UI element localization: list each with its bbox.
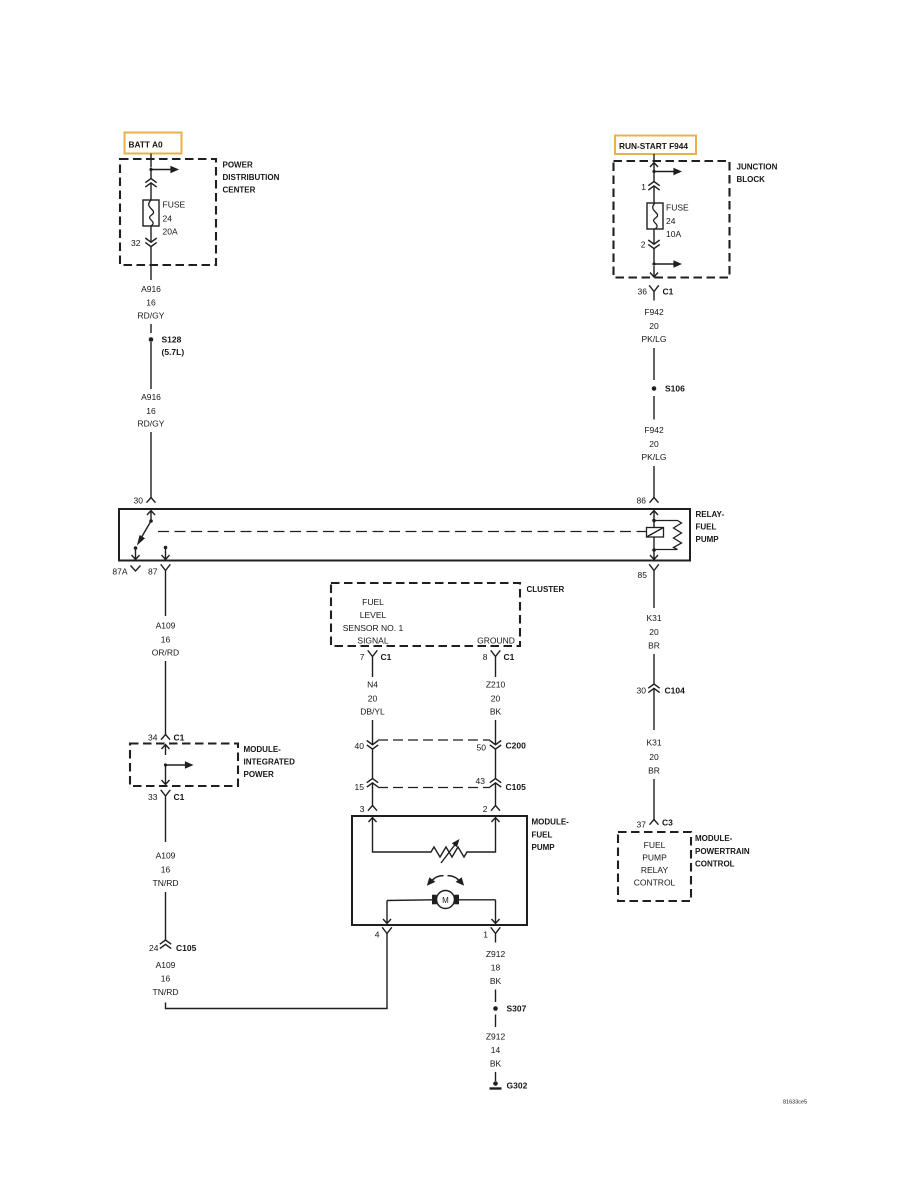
svg-text:RD/GY: RD/GY [138,419,165,429]
svg-text:FUEL: FUEL [644,840,666,850]
wire [653,172,655,182]
svg-text:A916: A916 [141,392,161,402]
svg-text:36: 36 [638,287,648,297]
svg-text:87A: 87A [112,567,127,577]
label fuel level sensor signal [343,597,404,646]
pump rotation arrows [427,876,464,886]
module fuel pump box [352,816,527,925]
svg-text:87: 87 [148,567,158,577]
relay switch blade [137,521,151,546]
svg-text:PUMP: PUMP [532,843,556,852]
wire [372,750,374,779]
svg-text:BK: BK [490,1059,502,1069]
connector pin 32 (PDC) [145,238,156,247]
svg-text:2: 2 [483,804,488,814]
svg-text:S307: S307 [507,1004,527,1014]
svg-text:FUEL: FUEL [362,597,384,607]
MIP pin arrow out [162,765,170,785]
svg-text:BATT A0: BATT A0 [129,140,163,150]
fuel level sensor (variable resistor) [373,828,496,857]
svg-text:POWER: POWER [244,770,274,779]
svg-text:S106: S106 [665,384,685,394]
splice S307 [493,1006,498,1011]
wire A109 from pin 87 [165,580,167,616]
wire to C105 [165,892,167,940]
power source tag BATT A0 [125,133,182,154]
svg-text:OR/RD: OR/RD [152,648,179,658]
svg-text:14: 14 [491,1045,501,1055]
module pin 2 arrow [492,818,500,829]
connector 33 C1 [161,790,171,805]
fuse 24 20A (PDC) [143,200,159,226]
svg-text:C200: C200 [506,741,527,751]
svg-text:16: 16 [161,974,171,984]
svg-text:32: 32 [131,238,141,248]
svg-text:MODULE-: MODULE- [244,745,282,754]
connector pin 4 [382,927,392,942]
module-powertrain control box [618,832,691,901]
wire [653,249,655,264]
svg-text:A109: A109 [156,621,176,631]
wire label A109 16 TN/RD [153,960,179,997]
svg-text:LEVEL: LEVEL [360,610,387,620]
connector 50 C200 [490,741,501,750]
svg-text:DISTRIBUTION: DISTRIBUTION [223,173,280,182]
wire [150,226,152,242]
relay fuel pump box [119,509,690,561]
wire from RUN-START [653,154,655,161]
svg-text:(5.7L): (5.7L) [162,347,185,357]
fuse 24 10A (JB) [647,203,663,229]
connector pin 3 [368,806,377,811]
svg-text:20: 20 [649,321,659,331]
wire label F942 20 PK/LG [641,307,666,344]
svg-text:F942: F942 [644,307,664,317]
svg-text:20: 20 [649,627,659,637]
svg-text:CLUSTER: CLUSTER [527,585,565,594]
wire [495,1015,497,1028]
svg-text:A916: A916 [141,284,161,294]
wire to fuel pump module pin 4 [166,943,388,1009]
relay pin 87 arrow [162,548,170,560]
svg-text:RELAY-: RELAY- [696,510,725,519]
wire [653,396,655,420]
svg-text:20A: 20A [163,227,178,237]
svg-text:8: 8 [483,652,488,662]
svg-text:N4: N4 [367,680,378,690]
svg-text:SIGNAL: SIGNAL [357,636,388,646]
svg-text:PK/LG: PK/LG [641,334,666,344]
svg-text:20: 20 [649,439,659,449]
svg-text:3: 3 [360,804,365,814]
label RELAY-FUEL PUMP [696,510,725,544]
connector C200 dashed link [378,739,490,741]
label MODULE-POWERTRAIN CONTROL [695,834,750,869]
svg-text:7: 7 [360,652,365,662]
relay pin 85 arrow [650,550,658,560]
feed arrow to other circuits [654,260,682,268]
svg-text:FUEL: FUEL [532,831,553,840]
wire [653,229,655,244]
svg-text:86: 86 [637,496,647,506]
svg-text:FUEL: FUEL [696,523,717,532]
wire [372,720,374,745]
svg-text:POWERTRAIN: POWERTRAIN [695,847,750,856]
connector 34 C1 [161,735,170,740]
svg-text:SENSOR NO. 1: SENSOR NO. 1 [343,623,404,633]
svg-text:24: 24 [163,214,173,224]
relay pin 87A node [134,546,138,550]
connector pin 85 [649,564,659,580]
svg-text:K31: K31 [646,613,661,623]
connector pin 86 [650,498,659,503]
svg-text:43: 43 [476,776,486,786]
wire [150,324,152,333]
feed arrow to other circuits [166,761,194,769]
relay pin 86 arrow [650,511,658,521]
svg-text:1: 1 [483,930,488,940]
svg-text:50: 50 [477,743,487,753]
wire label Z210 20 BK [486,680,506,717]
svg-text:PUMP: PUMP [696,535,720,544]
wire [495,783,497,806]
svg-text:CONTROL: CONTROL [695,860,735,869]
wire [653,348,655,380]
wire to module-integrated power [165,661,167,735]
svg-text:MODULE-: MODULE- [532,818,570,827]
connector 43 C105 [490,779,501,788]
feed arrow to other circuits [654,168,682,176]
svg-text:C1: C1 [174,792,185,802]
cluster box [331,583,520,646]
svg-text:BR: BR [648,641,660,651]
svg-text:M: M [442,896,449,905]
module pin 4 arrow [383,901,391,924]
svg-text:37: 37 [637,820,647,830]
svg-text:C104: C104 [665,686,686,696]
wire [372,783,374,806]
relay coil [647,521,664,551]
svg-text:RELAY: RELAY [641,865,669,875]
wire label K31 20 BR [646,613,661,651]
MIP junction node [164,763,167,766]
svg-text:INTEGRATED: INTEGRATED [244,758,296,767]
connector 30 C104 [648,684,659,693]
svg-text:16: 16 [146,406,156,416]
fuse cavity connector (PDC) [145,179,156,188]
wire label A109 16 OR/RD [152,621,179,658]
connector pin 30 [147,498,156,503]
svg-text:16: 16 [161,865,171,875]
wire label Z912 18 BK [486,949,506,986]
svg-text:33: 33 [148,792,158,802]
fuel pump motor M1 [432,891,459,909]
svg-text:CONTROL: CONTROL [634,878,676,888]
svg-text:RUN-START F944: RUN-START F944 [619,141,688,151]
junction node in JB [652,170,655,173]
svg-text:30: 30 [134,496,144,506]
relay internal resistor [654,521,682,550]
svg-text:16: 16 [146,298,156,308]
svg-text:FUSE: FUSE [163,200,186,210]
wire [165,805,167,842]
svg-text:85: 85 [638,570,648,580]
feed arrow into junction block [650,163,658,172]
motor lead left [387,899,432,902]
wire [150,170,152,179]
wire label A916 16 RD/GY [138,392,165,429]
wire [495,990,497,1003]
wire [653,186,655,203]
svg-text:24: 24 [149,943,159,953]
ground G302 [490,1081,502,1088]
wire label A109 16 TN/RD [153,851,179,889]
wire [150,183,152,200]
connector 40 C200 [367,741,378,750]
wire label K31 20 BR [646,738,661,776]
svg-text:K31: K31 [646,738,661,748]
wire [653,654,655,684]
connector 37 C3 [650,820,659,825]
wire label A916 16 RD/GY [138,284,165,321]
svg-text:34: 34 [148,733,158,743]
svg-text:BLOCK: BLOCK [737,175,766,184]
svg-text:4: 4 [375,930,380,940]
motor lead right [459,899,496,901]
svg-text:BK: BK [490,707,502,717]
wire A916 leaving PDC [150,247,152,280]
svg-text:18: 18 [491,963,501,973]
svg-text:MODULE-: MODULE- [695,834,733,843]
wire to relay pin 86 [653,466,655,498]
svg-text:RD/GY: RD/GY [138,311,165,321]
wire [495,750,497,779]
relay pin 87 node [164,546,168,550]
connector 24 C105 [160,940,171,949]
svg-text:81633ce5: 81633ce5 [783,1100,807,1106]
svg-text:C1: C1 [504,652,515,662]
svg-text:S128: S128 [162,335,182,345]
svg-text:BR: BR [648,766,660,776]
junction node in JB lower [652,262,655,265]
svg-text:C105: C105 [176,943,197,953]
wire from BATT A0 [150,154,152,168]
module pin 3 arrow [369,818,377,829]
svg-text:A109: A109 [156,960,176,970]
svg-text:TN/RD: TN/RD [153,878,179,888]
coil bottom node [652,548,656,552]
wire [372,666,374,678]
svg-text:C1: C1 [381,652,392,662]
wire [653,689,655,731]
svg-text:BK: BK [490,976,502,986]
svg-text:10A: 10A [666,229,681,239]
MIP pin arrow in [162,745,170,756]
fuse cavity connector pin 1 [648,182,659,191]
module pin 1 arrow [492,900,500,924]
svg-text:C3: C3 [662,818,673,828]
wire K31 from pin 85 [653,580,655,608]
terminator 87A [131,566,141,572]
svg-text:Z912: Z912 [486,1032,506,1042]
junction block box [614,161,730,278]
label fuel pump relay control [634,840,676,888]
relay pin 30 arrow [147,511,155,522]
connector C105 dashed link [378,787,490,789]
connector 8 C1 [491,650,501,665]
svg-text:F942: F942 [644,425,664,435]
svg-text:A109: A109 [156,851,176,861]
relay actuation dashed link [158,531,646,533]
svg-text:C105: C105 [506,782,527,792]
svg-text:20: 20 [491,694,501,704]
connector pin 1 [491,927,501,942]
wire [495,1072,497,1081]
svg-text:16: 16 [161,635,171,645]
svg-text:2: 2 [641,240,646,250]
svg-text:20: 20 [368,694,378,704]
connector pin 2 (JB) [648,240,659,249]
svg-text:PUMP: PUMP [642,853,667,863]
power distribution center box [120,159,216,265]
svg-text:DB/YL: DB/YL [360,707,385,717]
fuse value label [666,203,689,240]
wire [150,342,152,389]
coil top node [652,519,656,523]
wire label F942 20 PK/LG [641,425,666,462]
connector pin 2 [491,806,500,811]
svg-text:24: 24 [666,216,676,226]
svg-text:30: 30 [637,686,647,696]
svg-text:JUNCTION: JUNCTION [737,163,778,172]
splice S106 [652,386,657,391]
svg-text:C1: C1 [663,287,674,297]
connector pin 87 [161,564,171,580]
switch pivot node [149,519,153,523]
svg-text:FUSE: FUSE [666,203,689,213]
svg-text:20: 20 [649,752,659,762]
junction node in PDC [149,168,152,171]
label MODULE-FUEL PUMP [532,818,570,853]
feed arrow to other circuits [151,166,179,174]
wire to relay pin 30 [150,432,152,498]
variable resistor arrow [441,839,460,863]
splice S128 [149,337,154,342]
svg-text:TN/RD: TN/RD [153,987,179,997]
svg-text:Z210: Z210 [486,680,506,690]
svg-text:C1: C1 [174,733,185,743]
connector 15 C105 [367,779,378,788]
svg-text:CENTER: CENTER [223,186,256,195]
svg-text:40: 40 [355,741,365,751]
module-integrated power box [130,744,238,787]
wire label N4 20 DB/YL [360,680,385,717]
svg-text:Z912: Z912 [486,949,506,959]
svg-text:G302: G302 [507,1081,528,1091]
svg-text:GROUND: GROUND [477,636,515,646]
wire to PCM pin 37 [653,779,655,820]
svg-text:1: 1 [641,182,646,192]
connector 7 C1 [368,650,378,665]
svg-text:POWER: POWER [223,161,253,170]
wire [495,666,497,678]
svg-text:PK/LG: PK/LG [641,452,666,462]
wire [495,720,497,745]
connector 36 C1 [649,285,659,300]
power source tag RUN-START F944 [615,136,696,155]
arrow leaving junction block [650,266,658,277]
wire label Z912 14 BK [486,1032,506,1069]
relay pin 87A arrow [132,548,140,560]
svg-text:15: 15 [355,782,365,792]
fuse value label [163,200,186,237]
